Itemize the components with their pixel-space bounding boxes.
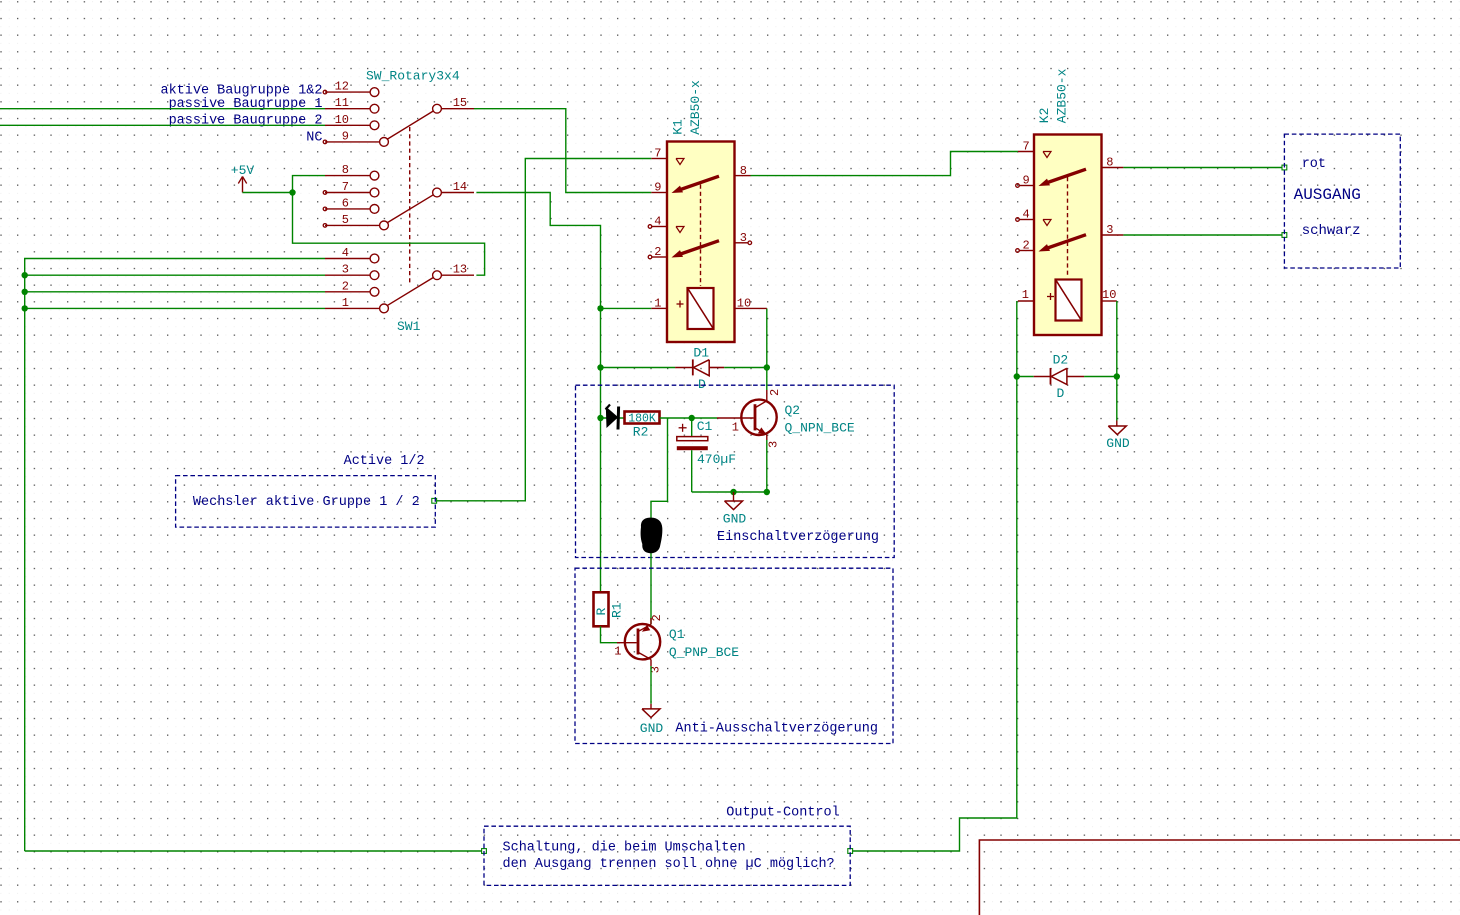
svg-text:4: 4 — [654, 215, 661, 229]
capacitor C1 — [691, 418, 693, 437]
wire D2 to GND — [1116, 377, 1118, 421]
junction R2 left — [597, 415, 603, 421]
SW1 pin 12 — [325, 91, 370, 93]
wire K1 pin10 down to D1 — [766, 308, 768, 367]
ground symbol Einschalt — [733, 492, 735, 501]
wire left vertical K1 pin1 to R1 — [600, 308, 602, 592]
relay K1 pin 3 — [735, 242, 749, 244]
svg-text:AZB50-x: AZB50-x — [688, 80, 703, 135]
relay K1 pin 1 — [651, 307, 667, 309]
svg-text:10: 10 — [1102, 288, 1116, 302]
svg-text:passive Baugruppe 1: passive Baugruppe 1 — [169, 97, 323, 112]
svg-text:2: 2 — [654, 245, 661, 259]
wire pin 1 — [25, 307, 325, 309]
relay K1 mechanical link dashed — [700, 185, 702, 287]
svg-text:GND: GND — [1106, 436, 1130, 451]
svg-text:den Ausgang trennen soll ohne: den Ausgang trennen soll ohne µC möglich… — [503, 857, 835, 872]
svg-text:D: D — [698, 377, 706, 392]
svg-text:1: 1 — [1022, 288, 1029, 302]
junction +5V — [289, 189, 295, 195]
svg-text:9: 9 — [1022, 174, 1029, 188]
svg-text:1: 1 — [614, 645, 621, 659]
wire pin 4 left rail — [25, 259, 325, 852]
wire K1 pin8 to K2 pin7 — [751, 152, 1018, 176]
wire D1 to right junction — [724, 367, 767, 369]
svg-text:R1: R1 — [610, 602, 625, 618]
svg-text:R2: R2 — [633, 425, 649, 440]
wire Wechsler box to K1 pin 7 — [434, 159, 651, 501]
wire R2 to Q2 base — [660, 417, 718, 419]
junction rail pin2 — [22, 289, 28, 295]
svg-text:schwarz: schwarz — [1302, 223, 1361, 239]
junction D2 left — [1014, 373, 1020, 379]
svg-text:9: 9 — [654, 181, 661, 195]
SW1 common pin 15 — [433, 104, 442, 113]
wire pin 3 — [25, 274, 325, 276]
transistor Q1 — [625, 624, 660, 659]
svg-text:SW_Rotary3x4: SW_Rotary3x4 — [366, 69, 460, 84]
svg-text:2: 2 — [1022, 239, 1029, 253]
SW1 pin 5 — [325, 224, 380, 226]
svg-text:Q2: Q2 — [785, 403, 801, 418]
diode D2 — [1017, 376, 1034, 378]
svg-text:Schaltung, die beim Umschalten: Schaltung, die beim Umschalten — [503, 841, 746, 856]
svg-text:13: 13 — [453, 263, 467, 277]
svg-text:3: 3 — [1106, 223, 1113, 237]
SW1 wiper contact bank1 — [387, 111, 434, 140]
relay K2 pin 2 — [1019, 250, 1034, 252]
wire K2 pin10 down to D2 — [1116, 301, 1118, 377]
svg-text:D: D — [1057, 386, 1065, 401]
svg-text:8: 8 — [1106, 156, 1113, 170]
wire R1 to Q1 base — [601, 626, 621, 642]
svg-text:K1: K1 — [671, 119, 686, 135]
wire to K1 pin 1 — [601, 307, 652, 309]
wire K2 pin1 down to D2 — [1016, 301, 1018, 377]
svg-text:2: 2 — [768, 389, 782, 396]
dashed box Einschaltverzoegerung — [576, 385, 895, 557]
hierarchical sheet corner — [979, 840, 1460, 915]
SW1 pin 10 — [325, 124, 370, 126]
svg-text:8: 8 — [740, 164, 747, 178]
relay K2 pin 4 — [1019, 219, 1034, 221]
svg-text:D1: D1 — [693, 345, 709, 360]
svg-text:3: 3 — [767, 441, 781, 448]
wire end square schwarz — [1282, 233, 1287, 238]
relay K1 contact arrow pin7 — [676, 159, 684, 165]
svg-text:Wechsler aktive Gruppe 1 / 2: Wechsler aktive Gruppe 1 / 2 — [193, 495, 420, 510]
relay K1 contact blade 1 — [678, 176, 719, 190]
black marker diode sketch — [606, 407, 618, 429]
SW1 mechanical link dashed — [409, 127, 411, 283]
resistor R2 — [625, 412, 660, 424]
power +5V symbol — [242, 177, 244, 193]
svg-text:GND: GND — [723, 512, 747, 527]
svg-text:D2: D2 — [1053, 353, 1069, 368]
svg-text:Einschaltverzögerung: Einschaltverzögerung — [717, 530, 879, 545]
relay K2 pin 10 — [1102, 300, 1117, 302]
wire pin 15 to K1 pin 9 — [474, 109, 651, 193]
svg-text:passive Baugruppe 2: passive Baugruppe 2 — [169, 114, 323, 129]
relay K2 body — [1034, 135, 1102, 336]
ground symbol Q1 — [650, 704, 652, 709]
relay K1 coil — [688, 288, 714, 329]
relay K1 pin 10 — [735, 307, 767, 309]
wire K2 pin8 to AUSGANG rot — [1123, 167, 1284, 169]
SW1 pin 6 — [325, 208, 370, 210]
wire Q2 emitter to GND — [766, 440, 768, 492]
dashed box Wechsler — [176, 476, 436, 527]
svg-text:Output-Control: Output-Control — [726, 806, 839, 821]
junction K1 pin1 — [597, 305, 603, 311]
svg-text:+5V: +5V — [231, 163, 255, 178]
svg-text:15: 15 — [453, 96, 467, 110]
ground symbol K2 — [1116, 421, 1118, 427]
junction GND mid — [730, 489, 736, 495]
svg-text:4: 4 — [342, 246, 349, 260]
svg-text:1: 1 — [342, 296, 349, 310]
SW1 pin 7 — [325, 192, 370, 194]
svg-text:SW1: SW1 — [397, 319, 421, 334]
relay K2 pin 8 — [1102, 167, 1124, 169]
svg-text:14: 14 — [453, 180, 467, 194]
svg-text:AUSGANG: AUSGANG — [1294, 186, 1361, 204]
svg-text:9: 9 — [342, 129, 349, 143]
svg-text:2: 2 — [650, 614, 664, 621]
resistor R1 — [594, 592, 609, 626]
relay K2 contact blade 1 — [1045, 169, 1086, 183]
wire C1 to GND junction — [692, 491, 767, 493]
svg-text:7: 7 — [654, 147, 661, 161]
relay K1 pin 2 — [652, 256, 667, 258]
SW1 pin 11 — [325, 108, 370, 110]
junction D2 right — [1114, 373, 1120, 379]
SW1 common pin 13 — [433, 271, 442, 280]
wire end square at Wechsler box — [432, 498, 437, 503]
wire pin 14 to K1 pin 1 — [476, 193, 600, 309]
svg-text:10: 10 — [335, 113, 349, 127]
SW1 pin 8 — [325, 175, 370, 177]
junction rail pin3 — [22, 272, 28, 278]
wire +5V rail to pin 13 — [293, 193, 485, 276]
svg-text:470µF: 470µF — [697, 452, 736, 467]
SW1 wiper contact bank3 — [387, 277, 434, 305]
svg-text:6: 6 — [342, 196, 349, 210]
SW1 pin 2 — [325, 291, 370, 293]
svg-text:AZB50-x: AZB50-x — [1055, 68, 1070, 123]
relay K2 pin 7 — [1018, 151, 1034, 153]
dashed box AUSGANG — [1284, 134, 1400, 268]
wire K1 pin1 junction to D1 — [601, 367, 676, 369]
svg-text:180K: 180K — [628, 412, 656, 425]
svg-text:K2: K2 — [1037, 108, 1052, 124]
svg-text:7: 7 — [1022, 140, 1029, 154]
relay K2 contact arrow pin7 — [1043, 152, 1051, 158]
SW1 wiper contact bank2 — [387, 195, 434, 223]
wire junction to pin 8 — [293, 176, 326, 193]
svg-text:rot: rot — [1302, 157, 1326, 172]
relay K1 pin 9 — [651, 192, 667, 194]
svg-text:5: 5 — [342, 213, 349, 227]
junction rail pin1 — [22, 305, 28, 311]
wire end square rot — [1282, 165, 1287, 170]
relay K2 contact arrow pin4 — [1043, 220, 1051, 226]
junction C1 top — [689, 415, 695, 421]
SW1 common pin 14 — [433, 188, 442, 197]
wire passive Baugruppe 1 to pin 11 — [0, 108, 325, 110]
transistor Q2 — [741, 400, 776, 435]
svg-text:1: 1 — [654, 297, 661, 311]
svg-text:2: 2 — [342, 279, 349, 293]
relay K1 pin 4 — [652, 226, 667, 228]
junction D1 right — [764, 364, 770, 370]
svg-text:3: 3 — [342, 263, 349, 277]
relay K2 coil — [1056, 280, 1082, 321]
svg-text:C1: C1 — [697, 419, 713, 434]
wire passive Baugruppe 2 to pin 10 — [0, 124, 325, 126]
wire Q2 collector — [766, 368, 768, 391]
svg-text:Q_NPN_BCE: Q_NPN_BCE — [785, 420, 855, 435]
svg-text:R: R — [594, 608, 609, 616]
relay K1 contact arrow pin4 — [676, 227, 684, 233]
dashed box Output-Control — [484, 826, 850, 885]
svg-text:GND: GND — [640, 721, 664, 736]
svg-text:7: 7 — [342, 180, 349, 194]
SW1 pin 1 — [325, 307, 380, 309]
relay K2 pin 3 — [1102, 234, 1124, 236]
SW1 pin 4 — [325, 258, 370, 260]
svg-text:Q_PNP_BCE: Q_PNP_BCE — [669, 645, 739, 660]
svg-text:11: 11 — [335, 96, 349, 110]
relay K1 pin 8 — [735, 175, 751, 177]
wire +5V to junction — [243, 192, 293, 194]
SW1 pin 3 — [325, 274, 370, 276]
wire end square at Output-Control left — [482, 849, 487, 854]
wire D2 to Output-Control box — [850, 377, 1017, 852]
dashed box Anti-Ausschaltverzoegerung — [575, 568, 893, 743]
black marker blob — [641, 518, 663, 554]
junction D1 left — [597, 364, 603, 370]
wire rail to Output-Control box — [25, 850, 484, 852]
svg-text:8: 8 — [342, 163, 349, 177]
wire K2 pin3 to AUSGANG schwarz — [1123, 234, 1284, 236]
diode D1 — [675, 367, 693, 369]
svg-text:Q1: Q1 — [669, 627, 685, 642]
wire Q1 emitter to GND — [650, 666, 652, 704]
svg-text:Anti-Ausschaltverzögerung: Anti-Ausschaltverzögerung — [675, 722, 878, 737]
junction Q2 emitter — [764, 489, 770, 495]
SW1 pin 9 — [325, 141, 380, 143]
relay K1 pin 7 — [651, 158, 667, 160]
svg-text:10: 10 — [737, 297, 751, 311]
wire R2 branch down to Q1 — [651, 418, 668, 624]
svg-text:Active 1/2: Active 1/2 — [344, 454, 425, 469]
wire end square Output-Control right — [848, 849, 853, 854]
relay K1 body — [667, 142, 735, 343]
relay K2 contact blade 2 — [1045, 235, 1086, 249]
relay K2 mechanical link dashed — [1067, 177, 1069, 278]
svg-text:3: 3 — [740, 231, 747, 245]
relay K1 contact blade 2 — [678, 241, 719, 255]
svg-text:1: 1 — [732, 421, 739, 435]
relay K2 pin 1 — [1018, 300, 1034, 302]
svg-text:NC: NC — [306, 130, 322, 145]
svg-text:4: 4 — [1022, 208, 1029, 222]
svg-text:12: 12 — [335, 80, 349, 94]
wire junction to R2 — [601, 417, 625, 419]
wire pin 2 — [25, 291, 325, 293]
relay K2 pin 9 — [1019, 185, 1034, 187]
